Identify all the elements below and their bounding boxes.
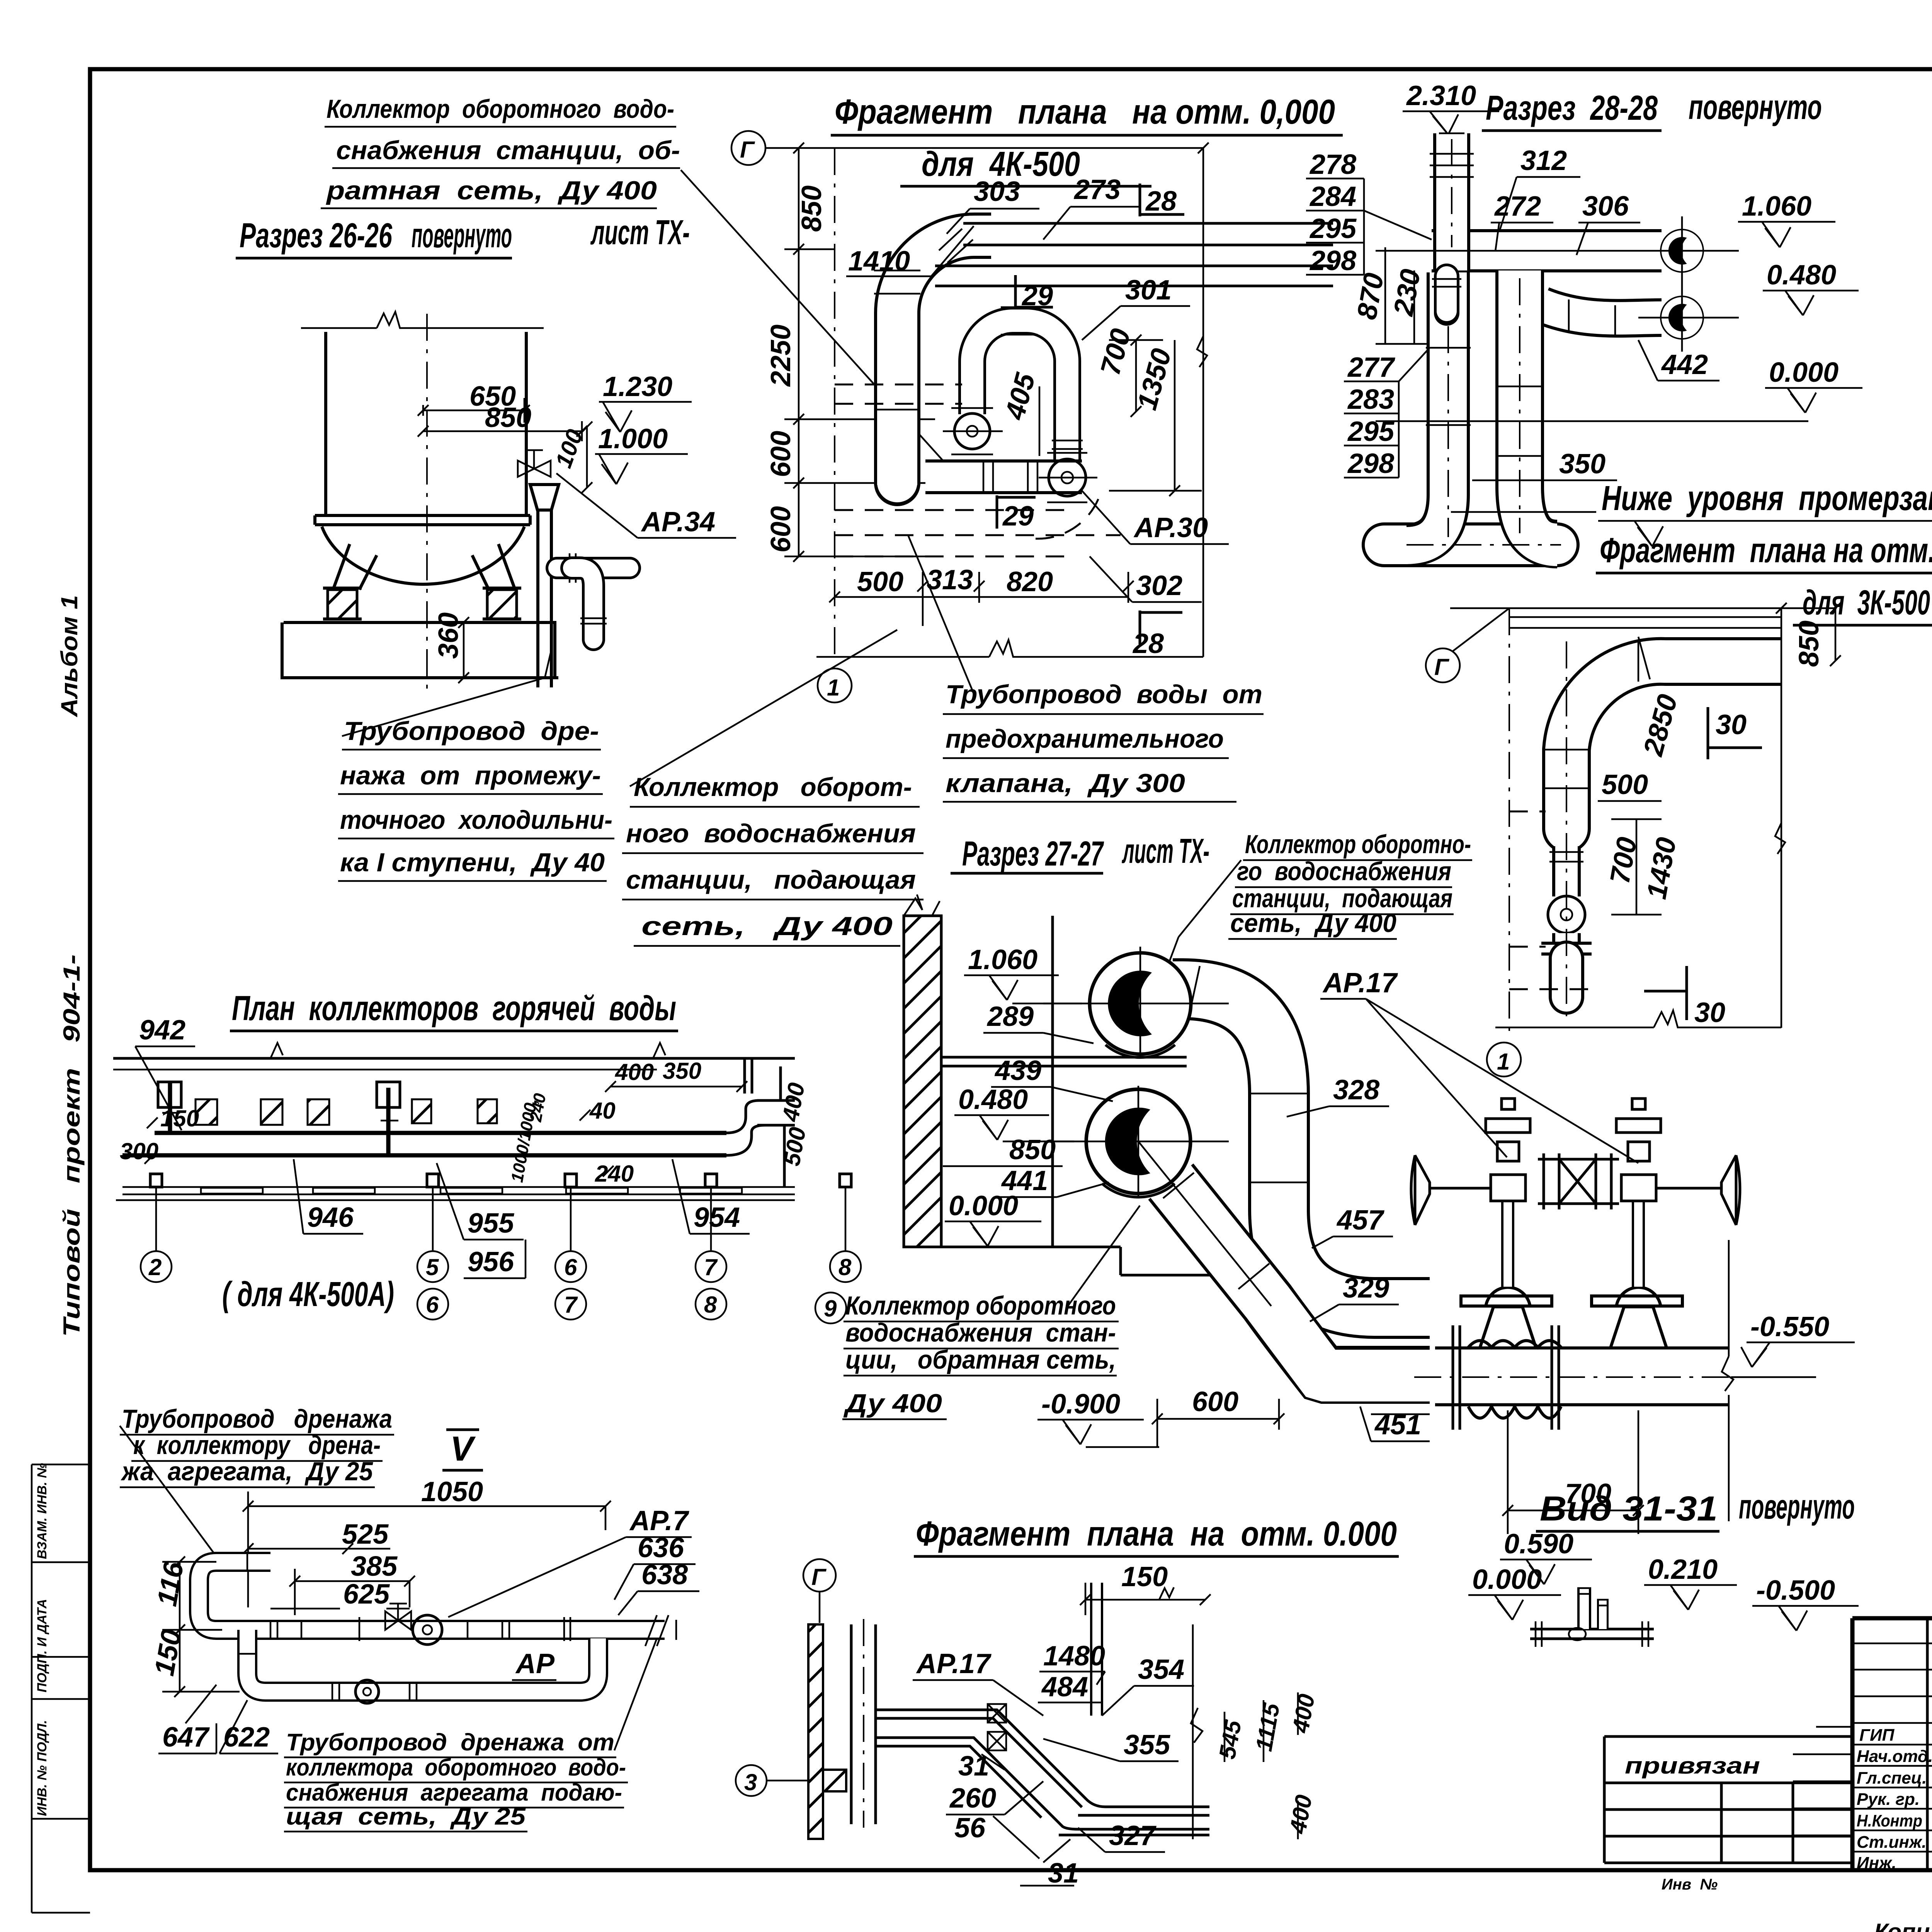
text: drainage pipe from collector (bottom): [284, 1638, 657, 1832]
svg-text:850: 850: [485, 402, 531, 433]
svg-text:850: 850: [1794, 621, 1825, 667]
svg-text:Трубопровод дренажа от: Трубопровод дренажа от: [286, 1729, 614, 1756]
svg-text:нажа от промежу-: нажа от промежу-: [340, 761, 601, 790]
drain: right end to break: [638, 1615, 676, 1646]
dim chain vertical (4K plan left): [784, 143, 935, 562]
svg-text:1.060: 1.060: [1742, 191, 1811, 222]
pipe: bottom horizontal (4K): [925, 461, 1082, 494]
top line (3K): [1450, 608, 1835, 628]
svg-text:Коллектор оборотно-: Коллектор оборотно-: [1245, 830, 1471, 859]
valve circle (3K): [1548, 896, 1585, 933]
elevation 0.000 (28-28): [1376, 357, 1862, 421]
hidden dashed lines (3K): [1509, 811, 1592, 989]
heading hot water collectors plan: [230, 989, 678, 1031]
svg-text:850: 850: [1009, 1134, 1056, 1165]
svg-text:0.000: 0.000: [949, 1190, 1018, 1221]
svg-text:312: 312: [1520, 145, 1567, 176]
grid mark 1 circle (4K plan): [818, 668, 852, 702]
vessel 26-26: dished bottom head: [322, 527, 524, 584]
svg-text:400: 400: [615, 1059, 654, 1085]
gate valve 2 yoke and handwheel: [1616, 1099, 1740, 1225]
heading fragment plan 0.000 for 4K-500: [831, 93, 1343, 186]
svg-text:278: 278: [1309, 149, 1356, 180]
label 946: [294, 1159, 363, 1234]
svg-text:Трубопровод воды от: Трубопровод воды от: [946, 680, 1262, 709]
svg-text:9: 9: [824, 1296, 837, 1321]
svg-text:ции, обратная сеть,: ции, обратная сеть,: [845, 1345, 1116, 1374]
dim 1430 rotated (3K): [1641, 835, 1682, 901]
svg-text:Н.Контр: Н.Контр: [1857, 1811, 1922, 1830]
right dim line (3K): [1775, 603, 1841, 1028]
svg-text:Фрагмент плана на отм. 0,000: Фрагмент плана на отм. 0,000: [1600, 531, 1932, 570]
plan: top wall line: [113, 1057, 795, 1060]
svg-text:30: 30: [1694, 997, 1725, 1028]
section mark 30 bottom (3K): [1644, 966, 1725, 1028]
svg-text:1: 1: [1497, 1049, 1510, 1075]
label 289 (27-27): [983, 1001, 1094, 1043]
section mark 29 bottom: [997, 495, 1036, 532]
svg-text:клапана, Ду 300: клапана, Ду 300: [946, 769, 1185, 798]
svg-text:повернуто: повернуто: [412, 216, 512, 255]
grid line 1 vertical (4K plan): [834, 148, 835, 657]
svg-text:277: 277: [1347, 352, 1395, 383]
svg-text:ратная сеть, Ду 400: ратная сеть, Ду 400: [326, 176, 657, 205]
drain: dim 625: [270, 1579, 410, 1610]
svg-text:Ду 400: Ду 400: [843, 1389, 942, 1418]
svg-text:600: 600: [765, 506, 796, 553]
label 302: [1090, 556, 1202, 602]
svg-text:301: 301: [1125, 275, 1172, 306]
heading section 27-27: [951, 832, 1209, 873]
svg-text:АР.17: АР.17: [1322, 968, 1398, 998]
svg-text:ИНВ. № ПОДЛ.: ИНВ. № ПОДЛ.: [35, 1720, 49, 1816]
svg-text:ГИП: ГИП: [1859, 1726, 1895, 1745]
grid mark Г circle (bottom fragment): [803, 1559, 836, 1623]
grid mark Г circle (3K): [1426, 608, 1509, 682]
label 273: [1043, 174, 1140, 240]
labels 31 260 56 (bottom fragment): [946, 1751, 1043, 1859]
svg-text:7: 7: [704, 1254, 718, 1280]
svg-text:302: 302: [1136, 570, 1182, 601]
label 329 (27-27): [1310, 1273, 1399, 1321]
svg-text:354: 354: [1138, 1654, 1184, 1685]
svg-text:повернуто: повернуто: [1739, 1488, 1855, 1526]
svg-text:327: 327: [1109, 1820, 1156, 1851]
svg-text:станции, подающая: станции, подающая: [626, 865, 916, 895]
svg-text:Г: Г: [1434, 654, 1450, 680]
svg-text:0.000: 0.000: [1769, 357, 1838, 388]
svg-text:385: 385: [351, 1551, 398, 1582]
left margin stamp strip: [32, 1464, 90, 1913]
title block outer: [1852, 1618, 1932, 1870]
drain: tee down to bottom loop: [237, 1630, 598, 1702]
vessel 26-26: drain funnel: [530, 485, 559, 510]
gate valve 1 body: [1461, 1200, 1552, 1348]
vessel 26-26: flange band: [315, 515, 530, 525]
svg-text:360: 360: [433, 612, 464, 659]
svg-text:привязан: привязан: [1625, 1753, 1760, 1779]
vertical pipe from top (bottom fragment): [1090, 1583, 1103, 1716]
vessel 26-26: left spring support: [328, 590, 357, 619]
svg-text:1.060: 1.060: [968, 944, 1037, 975]
text: water pipe from safety valve (4K): [908, 535, 1264, 802]
svg-text:622: 622: [223, 1722, 270, 1753]
text: collector supply net Du400 (left-mid): [622, 630, 923, 946]
label 354 (bottom fragment): [1102, 1654, 1194, 1716]
section mark 28 top: [1140, 184, 1184, 217]
label 350: [1451, 449, 1617, 512]
dim 870 230 rotated (28-28): [1351, 247, 1430, 344]
plan: main pipe lines: [122, 1133, 726, 1155]
svg-text:5: 5: [426, 1254, 439, 1280]
pipes bundle (bottom fragment): [876, 1710, 1209, 1835]
svg-text:Альбом 1: Альбом 1: [56, 595, 82, 718]
vessel 26-26: small valve symbol: [518, 450, 551, 477]
svg-text:Ст.инж.: Ст.инж.: [1857, 1833, 1927, 1852]
svg-text:лист ТХ-: лист ТХ-: [590, 213, 690, 252]
dim 700 rotated (3K): [1604, 819, 1662, 915]
copyist line below frame: [1874, 1919, 1932, 1932]
dim 2850 rotated (3K): [1638, 691, 1684, 760]
svg-text:6: 6: [564, 1254, 577, 1280]
svg-text:457: 457: [1336, 1205, 1384, 1236]
drain: dim 385: [289, 1551, 415, 1615]
svg-text:( для 4К-500А): ( для 4К-500А): [222, 1275, 394, 1314]
left rows near title block: [1793, 1727, 1852, 1835]
label 1410: [846, 226, 974, 277]
right dims (bottom fragment): [1191, 1624, 1320, 1839]
crescent circle upper (28-28): [1661, 230, 1703, 272]
vessel 26-26: top break line: [301, 312, 544, 328]
svg-text:0.590: 0.590: [1504, 1529, 1573, 1560]
hidden dashed pipes (4K): [835, 384, 1121, 556]
pipe: 28-28 bottom horizontal with cap: [1384, 522, 1557, 567]
svg-text:0.480: 0.480: [958, 1084, 1028, 1115]
svg-text:2.310: 2.310: [1406, 80, 1476, 111]
drain: dim 1050: [243, 1476, 611, 1607]
svg-text:коллектора оборотного водо-: коллектора оборотного водо-: [286, 1754, 626, 1781]
elevation 0.480 (27-27): [954, 1084, 1074, 1141]
bottom break line (3K): [1495, 1010, 1781, 1027]
pipe: 28-28 horizontal to upper circle: [1432, 229, 1662, 272]
label 442: [1638, 340, 1719, 381]
plan: lower channel lines: [116, 1187, 795, 1200]
pipe: 3K below valve with flange and U cap: [1541, 933, 1592, 997]
svg-text:240: 240: [595, 1161, 634, 1187]
elevation 2.310: [1403, 80, 1499, 134]
label 303: [947, 176, 1039, 234]
svg-text:350: 350: [1559, 449, 1605, 480]
drain: bowtie valve on main pipe: [385, 1604, 442, 1645]
svg-text:820: 820: [1007, 566, 1053, 597]
pipe: 28-28 small U stub: [1432, 276, 1461, 313]
svg-text:Коллектор оборотного водо-: Коллектор оборотного водо-: [327, 94, 674, 124]
svg-text:1410: 1410: [848, 246, 910, 277]
wall interior edge 27-27: [1051, 916, 1054, 1247]
text: below freezing level: [1598, 479, 1932, 546]
svg-text:ка I ступени, Ду 40: ка I ступени, Ду 40: [340, 848, 605, 877]
drain: label AP: [512, 1648, 556, 1680]
label 451 (27-27): [1360, 1406, 1430, 1441]
dim 1350 rotated (4K): [1109, 340, 1202, 496]
label 500 (3K): [1598, 769, 1662, 801]
svg-text:954: 954: [694, 1202, 740, 1233]
svg-text:0.210: 0.210: [1648, 1554, 1718, 1585]
label 301: [1082, 275, 1190, 340]
wall strip (bottom fragment): [808, 1619, 876, 1839]
svg-text:313: 313: [927, 565, 973, 595]
elevation 1.060 (28-28): [1738, 191, 1835, 247]
grid mark 1 circle (3K): [1487, 1043, 1521, 1077]
pipe: inner P-loop (4K): [972, 307, 1083, 460]
text: collector return net Du400 (top-left): [321, 94, 680, 208]
valve circle AP30 (4K): [1039, 453, 1097, 502]
svg-text:Трубопровод дренажа: Трубопровод дренажа: [122, 1404, 392, 1434]
elevation -0.900 (27-27): [1037, 1389, 1159, 1447]
pipe: top horizontal collector (4K): [963, 223, 1333, 245]
svg-text:Разрез 26-26: Разрез 26-26: [240, 216, 393, 255]
svg-text:295: 295: [1309, 213, 1357, 244]
svg-text:600: 600: [765, 431, 796, 477]
svg-text:лист ТХ-: лист ТХ-: [1122, 832, 1209, 871]
label 942: [135, 1015, 195, 1130]
grid circles row 1 (plan): [141, 1187, 861, 1282]
bottom dims 500 313 820: [829, 565, 1134, 626]
elevation 0.480 (28-28): [1763, 260, 1859, 315]
dim 700 rotated (4K): [1095, 325, 1163, 417]
svg-text:Трубопровод дре-: Трубопровод дре-: [344, 716, 599, 746]
svg-text:Рук. гр.: Рук. гр.: [1857, 1790, 1920, 1809]
right break line (valve assembly): [1722, 1240, 1733, 1521]
svg-text:298: 298: [1309, 245, 1356, 276]
label 355 (bottom fragment): [1043, 1730, 1179, 1761]
svg-text:Разрез 27-27: Разрез 27-27: [962, 835, 1104, 873]
svg-text:АР.17: АР.17: [916, 1648, 992, 1679]
crescent circle lower (28-28): [1661, 296, 1703, 339]
label 306: [1577, 191, 1640, 255]
title block: signature rows: [1857, 1726, 1932, 1872]
grid circle numbers row 1: [148, 1254, 852, 1280]
svg-text:8: 8: [704, 1292, 717, 1318]
svg-text:328: 328: [1333, 1075, 1379, 1105]
node mark V: [442, 1430, 483, 1470]
grid line vertical (3K): [1509, 608, 1510, 1031]
plan: white square supports: [158, 1082, 181, 1107]
dimension 650: [418, 381, 530, 423]
floor line 27-27: [941, 1247, 1236, 1275]
pipe: 28-28 main vertical pair 1: [1406, 272, 1544, 546]
svg-text:6: 6: [426, 1292, 439, 1318]
dim 405 rotated (4K): [999, 369, 1041, 456]
plan: column base stubs: [150, 1174, 851, 1187]
vessel 26-26: centerline: [426, 314, 428, 692]
svg-text:1050: 1050: [421, 1476, 483, 1507]
text: drainage from intermediate cooler: [338, 653, 614, 881]
valve assembly: bellows compensator: [1468, 1341, 1561, 1418]
dim 600 (27-27): [1152, 1386, 1284, 1447]
svg-text:-0.500: -0.500: [1756, 1575, 1835, 1606]
svg-text:600: 600: [1192, 1386, 1238, 1417]
vessel 26-26: foundation block: [282, 622, 558, 678]
pipe: 3K elbow and riser: [1543, 637, 1782, 829]
dimension 850: [418, 402, 587, 441]
svg-text:306: 306: [1582, 191, 1629, 222]
gate valve 2 body: [1592, 1200, 1682, 1348]
valve assembly pipe (31-31 area): [1414, 1376, 1731, 1377]
drain: main horizontal pipe: [222, 1617, 638, 1641]
dim 150 (bottom fragment): [1080, 1561, 1211, 1615]
svg-text:647: 647: [162, 1722, 210, 1753]
labels 1480 484 (bottom fragment): [1038, 1641, 1105, 1702]
heading fragment plan for 3K-500: [1596, 531, 1932, 625]
svg-text:го водоснабжения: го водоснабжения: [1237, 857, 1451, 886]
elevation 1.230: [599, 371, 692, 432]
svg-text:1.230: 1.230: [603, 371, 672, 402]
grid circles row 2 (plan): [417, 1289, 846, 1323]
svg-text:500: 500: [857, 566, 903, 597]
svg-text:для 3К-500: для 3К-500: [1803, 583, 1930, 622]
svg-text:439: 439: [994, 1055, 1041, 1086]
crescent circle upper (27-27): [1090, 953, 1191, 1054]
svg-text:Г: Г: [811, 1564, 827, 1590]
svg-text:0.480: 0.480: [1767, 260, 1836, 291]
drain: left dims 116 150: [149, 1556, 240, 1697]
svg-text:точного холодильни-: точного холодильни-: [340, 805, 612, 835]
plan: channel cover plates: [201, 1188, 742, 1194]
labels 955 956: [437, 1163, 526, 1278]
svg-text:525: 525: [342, 1519, 389, 1550]
svg-text:Вид 31-31: Вид 31-31: [1540, 1490, 1718, 1528]
svg-text:956: 956: [468, 1247, 514, 1277]
heading section 28-28: [1482, 88, 1822, 131]
svg-text:150: 150: [160, 1105, 199, 1131]
svg-text:Г: Г: [740, 137, 755, 163]
plan: wall right side: [745, 1058, 795, 1187]
svg-text:сеть, Ду 400: сеть, Ду 400: [1230, 908, 1396, 938]
label 441 (27-27): [998, 1165, 1109, 1197]
svg-text:V: V: [450, 1430, 476, 1468]
elevation 1.060 (27-27): [964, 944, 1082, 1003]
svg-text:снабжения станции, об-: снабжения станции, об-: [336, 136, 680, 165]
svg-text:2: 2: [148, 1254, 162, 1280]
svg-text:484: 484: [1041, 1672, 1088, 1702]
bottom break line (4K): [816, 640, 1203, 657]
pipe: 27-27 upper elbow to down right: [1173, 966, 1430, 1308]
stacked labels 278 284 295 298: [1306, 149, 1432, 276]
vessel 26-26: drain pipe down: [538, 510, 551, 687]
drain: labels 647 622: [158, 1685, 278, 1753]
svg-text:850: 850: [796, 185, 827, 232]
svg-text:29: 29: [1002, 501, 1034, 532]
text: collector return net (27-27): [842, 1206, 1140, 1419]
drain: labels AP7 636 638: [448, 1505, 699, 1617]
pipe: 3K lower narrow pipe: [1549, 846, 1583, 896]
wall 27-27: [904, 895, 941, 1247]
centerline through 3K riser: [1566, 641, 1567, 1024]
svg-text:40: 40: [589, 1098, 616, 1124]
svg-text:Инж.: Инж.: [1857, 1854, 1896, 1872]
svg-text:289: 289: [986, 1001, 1034, 1032]
label 31 bottom (bottom fragment): [1020, 1839, 1079, 1889]
pipe: 27-27 lower diagonal: [1163, 1173, 1430, 1376]
svg-text:ного водоснабжения: ного водоснабжения: [626, 819, 916, 848]
grid mark 3 circle (bottom fragment): [736, 1765, 846, 1796]
centerlines 28-28 risers: [1406, 139, 1561, 545]
valve circle on P-loop (4K): [943, 408, 1003, 454]
svg-text:Копировал: Копировал: [1874, 1919, 1932, 1932]
plan: riser stems: [170, 1082, 388, 1155]
heading vid 31-31: [1536, 1488, 1855, 1531]
svg-text:329: 329: [1343, 1273, 1389, 1304]
dimension 360 rotated: [433, 612, 487, 683]
svg-text:водоснабжения стан-: водоснабжения стан-: [845, 1318, 1116, 1347]
svg-text:-0.900: -0.900: [1041, 1389, 1120, 1420]
svg-text:500: 500: [1602, 769, 1648, 800]
svg-text:355: 355: [1124, 1730, 1170, 1760]
svg-text:Ниже уровня промерзания: Ниже уровня промерзания: [1602, 479, 1932, 518]
svg-text:2250: 2250: [765, 325, 796, 387]
label 312: [1499, 145, 1580, 232]
valve assembly: flange pairs: [1453, 1325, 1559, 1430]
grid mark Г circle (4K plan): [731, 131, 1203, 165]
text: collector supply right of 27-27 heading: [1168, 830, 1472, 966]
dim 700 (valves): [1502, 1410, 1644, 1534]
svg-text:260: 260: [949, 1783, 996, 1814]
svg-text:Типовой проект 904-1-: Типовой проект 904-1-: [59, 954, 85, 1337]
plan: right end elbows: [726, 1100, 777, 1155]
svg-text:Гл.спец.: Гл.спец.: [1857, 1769, 1927, 1787]
vessel 26-26: left leg: [333, 544, 377, 590]
svg-text:625: 625: [343, 1579, 390, 1610]
label AP17 (bottom fragment): [913, 1648, 1043, 1716]
svg-text:955: 955: [468, 1208, 514, 1239]
elevation -0.550: [1731, 1311, 1855, 1377]
label 954: [672, 1159, 750, 1234]
svg-text:Фрагмент плана на отм. 0,0: Фрагмент плана на отм. 0,000: [835, 93, 1335, 131]
svg-text:303: 303: [974, 176, 1020, 207]
vessel 26-26: elbow pipe down: [572, 568, 607, 639]
drain: upper stub pipe: [216, 1552, 270, 1572]
gate valve 1 yoke and handwheel: [1411, 1099, 1530, 1225]
svg-text:ВЗАМ. ИНВ. №: ВЗАМ. ИНВ. №: [35, 1463, 49, 1559]
svg-text:946: 946: [307, 1202, 354, 1233]
svg-text:28: 28: [1132, 628, 1164, 659]
pipe: 28-28 main vertical pair 2: [1520, 270, 1557, 545]
dimension 100 rotated: [550, 422, 592, 493]
svg-text:298: 298: [1347, 448, 1394, 479]
right boundary dim line (4K): [1197, 143, 1209, 657]
insulation cross marks (bottom fragment): [988, 1704, 1006, 1750]
svg-text:8: 8: [838, 1254, 852, 1280]
svg-text:Инв №: Инв №: [1662, 1876, 1718, 1893]
svg-text:283: 283: [1347, 384, 1394, 415]
vid 31-31 small sketch: elevations: [1468, 1529, 1859, 1631]
vessel 26-26: right spring support: [487, 590, 517, 619]
pipe: second horizontal collector (4K): [935, 266, 1333, 286]
svg-text:1: 1: [827, 675, 840, 701]
flange arcs under circles: [1102, 1045, 1175, 1197]
svg-text:предохранительного: предохранительного: [946, 724, 1224, 753]
crescent circle lower (27-27): [1086, 1089, 1190, 1194]
svg-text:Разрез 28-28: Разрез 28-28: [1486, 89, 1658, 128]
grid circle numbers row 2: [426, 1292, 837, 1321]
svg-text:272: 272: [1494, 191, 1541, 222]
vessel 26-26: right nozzle pipe: [557, 553, 630, 583]
label 328 (27-27): [1287, 1075, 1389, 1117]
svg-text:3: 3: [744, 1769, 757, 1795]
svg-text:Нач.отд.: Нач.отд.: [1857, 1747, 1932, 1766]
svg-text:942: 942: [139, 1015, 185, 1046]
